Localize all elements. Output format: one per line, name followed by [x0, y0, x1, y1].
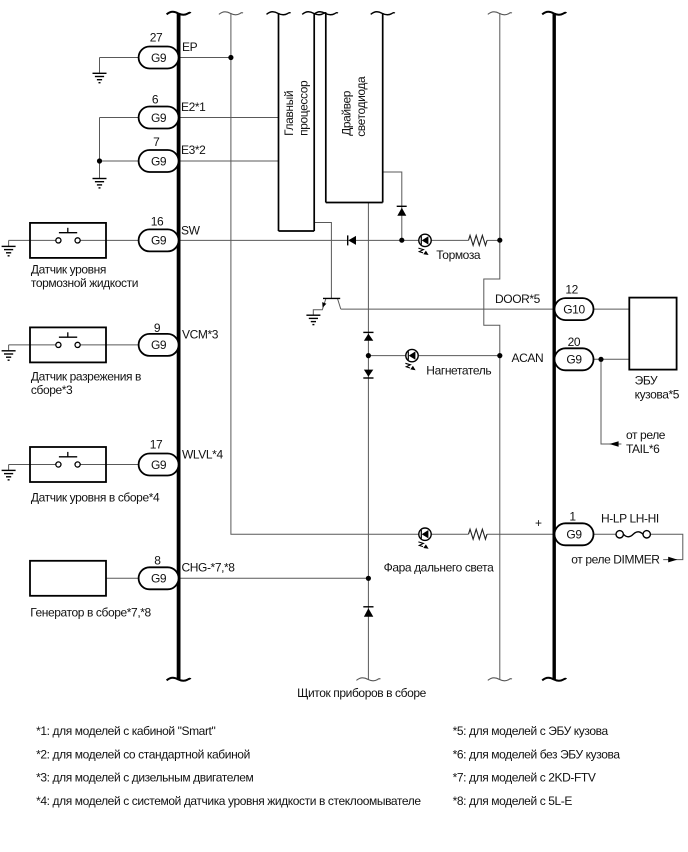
svg-text:+: + [535, 516, 542, 530]
svg-text:Нагнетатель: Нагнетатель [426, 364, 491, 378]
svg-text:светодиода: светодиода [354, 76, 368, 137]
svg-text:E3*2: E3*2 [181, 143, 206, 157]
svg-text:G9: G9 [566, 353, 582, 367]
svg-text:20: 20 [568, 335, 581, 349]
svg-text:сборе*3: сборе*3 [31, 383, 73, 397]
svg-text:*4: для моделей с системой дат: *4: для моделей с системой датчика уровн… [36, 794, 421, 808]
svg-text:12: 12 [565, 282, 578, 296]
svg-text:*5: для моделей с ЭБУ кузова: *5: для моделей с ЭБУ кузова [453, 724, 609, 738]
svg-text:*6: для моделей без ЭБУ кузова: *6: для моделей без ЭБУ кузова [453, 747, 621, 761]
svg-text:G10: G10 [563, 302, 585, 316]
svg-text:VCM*3: VCM*3 [182, 328, 219, 342]
svg-text:от реле: от реле [626, 428, 666, 442]
svg-text:1: 1 [569, 510, 576, 524]
svg-text:Главный: Главный [282, 91, 296, 136]
svg-text:17: 17 [150, 438, 163, 452]
svg-text:27: 27 [150, 31, 163, 45]
svg-text:G9: G9 [151, 51, 167, 65]
svg-text:G9: G9 [151, 572, 167, 586]
svg-text:TAIL*6: TAIL*6 [626, 442, 660, 456]
svg-text:*7: для моделей с 2KD-FTV: *7: для моделей с 2KD-FTV [453, 771, 596, 785]
svg-text:*1: для моделей с кабиной "Sma: *1: для моделей с кабиной "Smart" [36, 724, 215, 738]
svg-text:тормозной жидкости: тормозной жидкости [31, 276, 138, 290]
svg-text:E2*1: E2*1 [181, 100, 206, 114]
svg-text:Фара дальнего света: Фара дальнего света [384, 561, 495, 575]
svg-text:Щиток приборов в сборе: Щиток приборов в сборе [297, 686, 427, 700]
svg-text:Тормоза: Тормоза [436, 248, 481, 262]
svg-text:G9: G9 [151, 338, 167, 352]
svg-text:H-LP LH-HI: H-LP LH-HI [601, 511, 659, 525]
svg-text:DOOR*5: DOOR*5 [495, 292, 541, 306]
svg-text:9: 9 [154, 321, 161, 335]
svg-text:процессор: процессор [297, 80, 311, 136]
svg-text:кузова*5: кузова*5 [635, 388, 680, 402]
svg-text:G9: G9 [151, 111, 167, 125]
svg-text:G9: G9 [566, 528, 582, 542]
svg-text:Генератор в сборе*7,*8: Генератор в сборе*7,*8 [30, 605, 151, 619]
svg-text:*3: для моделей с дизельным дв: *3: для моделей с дизельным двигателем [36, 771, 253, 785]
svg-text:*8: для моделей с 5L-E: *8: для моделей с 5L-E [453, 794, 573, 808]
svg-text:*2: для моделей со стандартной: *2: для моделей со стандартной кабиной [36, 747, 250, 761]
svg-text:ACAN: ACAN [512, 351, 544, 365]
svg-text:EP: EP [182, 40, 198, 54]
svg-text:CHG-*7,*8: CHG-*7,*8 [182, 561, 236, 575]
svg-text:Драйвер: Драйвер [340, 90, 354, 136]
svg-text:16: 16 [151, 215, 164, 229]
svg-text:G9: G9 [151, 458, 167, 472]
svg-text:от реле DIMMER: от реле DIMMER [571, 553, 660, 567]
svg-text:ЭБУ: ЭБУ [635, 374, 658, 388]
svg-text:6: 6 [152, 93, 159, 107]
svg-text:WLVL*4: WLVL*4 [182, 448, 223, 462]
svg-text:Датчик уровня: Датчик уровня [31, 262, 106, 276]
svg-text:G9: G9 [151, 154, 167, 168]
svg-text:Датчик разрежения в: Датчик разрежения в [31, 370, 141, 384]
svg-text:8: 8 [154, 554, 161, 568]
svg-text:7: 7 [153, 135, 160, 149]
svg-text:SW: SW [181, 224, 201, 238]
svg-text:G9: G9 [151, 234, 167, 248]
svg-text:Датчик уровня в сборе*4: Датчик уровня в сборе*4 [31, 490, 160, 504]
